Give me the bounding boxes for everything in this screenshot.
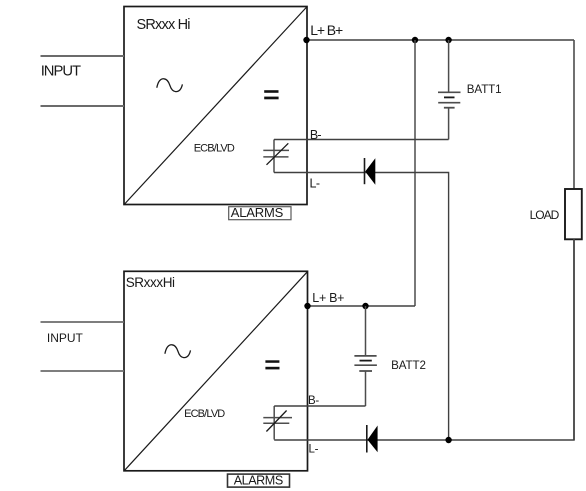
node bus junction A xyxy=(412,37,418,43)
node battery2 tap xyxy=(362,303,368,309)
diode D1 xyxy=(365,158,376,185)
LVD contactor U2 xyxy=(263,406,292,440)
rectifier module U2 box xyxy=(124,271,308,471)
module U1 diagonal xyxy=(125,7,307,204)
wire B- U2 xyxy=(274,405,365,407)
node L- bus junction xyxy=(445,437,451,443)
svg-text:L-: L- xyxy=(309,443,319,455)
ALARMS box U1 xyxy=(229,205,291,220)
wire B- U1 xyxy=(274,139,449,141)
ALARMS box U2 xyxy=(228,474,290,488)
battery BATT1 xyxy=(438,40,461,140)
module U2 diagonal xyxy=(125,272,308,471)
svg-text:SRxxx Hi: SRxxx Hi xyxy=(137,17,191,33)
svg-text:INPUT: INPUT xyxy=(47,331,84,345)
svg-text:L+ B+: L+ B+ xyxy=(310,22,343,38)
wire vertical interconnect bus xyxy=(414,40,416,306)
svg-text:LOAD: LOAD xyxy=(530,208,560,222)
svg-text:BATT1: BATT1 xyxy=(467,83,502,96)
wire L+ U2 xyxy=(308,305,416,307)
wire L+ bus top xyxy=(307,39,575,41)
wire L- U1 xyxy=(274,173,449,441)
DC symbol U1 xyxy=(264,90,278,93)
svg-text:ECB/LVD: ECB/LVD xyxy=(184,408,225,420)
wire LOAD return xyxy=(573,239,575,440)
node L+ B+ U1 xyxy=(303,37,309,43)
battery BATT2 xyxy=(354,306,377,406)
load resistor xyxy=(565,189,582,239)
LVD contactor U1 xyxy=(263,140,289,173)
wire INPUT U1 line2 xyxy=(41,105,125,107)
wire INPUT U2 line2 xyxy=(41,370,125,372)
svg-text:ALARMS: ALARMS xyxy=(231,205,284,220)
DC symbol U2 xyxy=(265,360,279,363)
svg-text:L+ B+: L+ B+ xyxy=(312,291,344,305)
node battery1 tap xyxy=(445,37,451,43)
svg-text:B-: B- xyxy=(308,395,319,407)
wire L- bus U2 xyxy=(274,239,574,440)
AC sine symbol U1 xyxy=(157,79,183,92)
AC sine symbol U2 xyxy=(165,345,191,358)
svg-text:ALARMS: ALARMS xyxy=(234,474,283,488)
svg-text:L-: L- xyxy=(310,176,320,190)
diode D2 xyxy=(367,425,378,453)
rectifier module U1 box xyxy=(124,7,307,205)
wire INPUT U2 line1 xyxy=(41,321,125,323)
node L+ B+ U2 xyxy=(304,303,310,309)
svg-text:BATT2: BATT2 xyxy=(391,359,426,372)
wire INPUT U1 line1 xyxy=(41,55,125,57)
svg-text:SRxxxHi: SRxxxHi xyxy=(126,275,175,290)
wire LOAD feed xyxy=(573,40,575,189)
svg-text:ECB/LVD: ECB/LVD xyxy=(194,143,235,155)
svg-text:INPUT: INPUT xyxy=(41,63,81,79)
